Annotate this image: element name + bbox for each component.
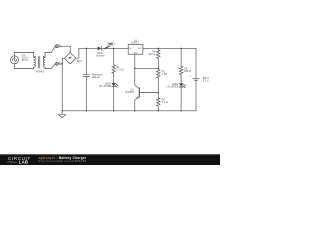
battery BAT1 [190,75,210,82]
wire ADJ to R4-R3 junction [135,67,159,69]
node R5 branch top [180,48,182,50]
node ADJ tee [134,68,136,70]
wire R2 to bottom bus [157,106,159,111]
node base junction [158,92,160,94]
LED LED2 [166,83,186,89]
svg-text:LTL-307EE: LTL-307EE [166,86,179,89]
wire cap branch lower [85,77,87,111]
fuse F1 [55,44,62,48]
svg-text:XFMR1: XFMR1 [36,70,45,73]
node R1 branch top [113,48,115,50]
switch SW1 toggle box [107,42,115,46]
svg-text:1.2 V: 1.2 V [203,78,209,82]
fuse F2 [55,62,62,66]
wire primary top [15,52,34,54]
wire R4 to junction [157,58,159,69]
svg-text:ADJ: ADJ [134,52,138,55]
node R4-R3 junction [158,68,160,70]
svg-text:LAB: LAB [19,160,29,165]
wire R3 to R2 [157,78,159,98]
capacitor C1 [83,72,103,79]
ground [58,111,66,118]
bridge rectifier BR1 [65,53,83,64]
svg-text:100 µF: 100 µF [92,75,100,79]
watermark bar [0,155,220,165]
CircuitLab logo [7,156,31,165]
transistor Q1 [125,85,158,100]
wire battery branch [195,48,197,78]
resistor R3 [157,69,167,78]
op-amp U1 regulator LM317 box [128,40,143,54]
switch SW1 pivot [105,48,106,49]
svg-text:240 Ω: 240 Ω [149,52,156,56]
svg-text:60 Hz: 60 Hz [22,59,29,62]
svg-text:LM317L: LM317L [131,43,140,45]
node cap junction top [86,48,88,50]
node R4 branch top [158,48,160,50]
voltage source V1 [11,53,30,69]
node bus-led2 [180,110,182,112]
node bus-cap [86,110,88,112]
wire bridge out to top bus [76,48,128,58]
wire bridge to ground bus [61,64,63,111]
node bus-led1 [113,110,115,112]
svg-text:Internal: Internal [96,55,105,58]
wire R1 to LED1 [113,73,115,83]
wire bottom bus [62,110,196,112]
node bus-q1 [134,110,136,112]
LED LED1 [99,83,119,89]
node bus-r2 [158,110,160,112]
wire primary bottom [15,68,34,70]
node bus-gnd [61,110,63,112]
wire F2 to bridge left [58,63,62,65]
wire ADJ pin down [134,54,136,85]
wire U1 out to right [143,47,196,49]
switch SW1 lever [105,46,110,49]
svg-text:0.2 Ω: 0.2 Ω [162,100,168,104]
resistor R5 [179,66,191,74]
svg-text:1 kΩ: 1 kΩ [162,72,167,76]
svg-text:680 Ω: 680 Ω [184,69,191,73]
wire emitter to bottom bus [134,100,136,111]
wire secondary top [45,46,55,52]
diode D1 [96,46,105,57]
watermark text [39,156,87,163]
resistor R1 [112,65,124,73]
transformer XFMR1 [34,53,46,74]
wire R5 to LED2 [180,75,182,84]
wire cap branch upper [85,48,87,74]
wire LED1 to bottom bus [113,87,115,111]
wire LED2 to bottom bus [180,87,182,111]
svg-text:LTL-307EE: LTL-307EE [99,85,112,88]
svg-text:2N2905: 2N2905 [125,91,134,94]
svg-text:BR1: BR1 [77,59,83,63]
resistor R2 [157,98,168,107]
wire to R1 [113,48,115,64]
svg-text:http://circuitlab.com/c/456259: http://circuitlab.com/c/456259 [39,159,87,163]
wire secondary bottom [45,64,55,69]
svg-text:1.2 kΩ: 1.2 kΩ [116,68,124,72]
resistor R4 [149,48,160,58]
wire bridge left corner [62,58,64,64]
wire F1 to bridge top [58,46,70,52]
node F2-gnd junction [62,63,63,64]
wire battery to bottom bus [195,80,197,111]
wire to R5 [180,48,182,66]
